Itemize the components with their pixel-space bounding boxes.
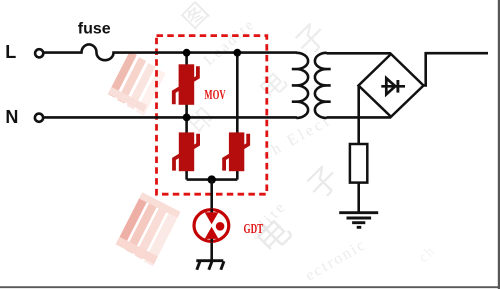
svg-text:L: L [5,42,16,62]
svg-text:MOV: MOV [204,87,226,103]
svg-text:GDT: GDT [244,220,264,237]
svg-text:fuse: fuse [78,21,111,38]
svg-text:N: N [5,107,18,127]
